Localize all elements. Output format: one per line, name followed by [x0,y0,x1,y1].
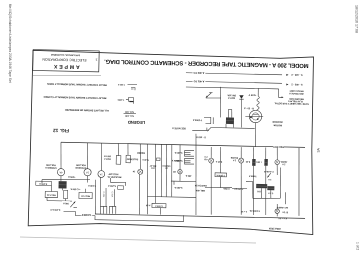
wire lamp4 up stub [276,204,278,209]
label A 401 TO [193,79,206,83]
wire seg y182 [110,181,125,184]
wire coil top link [228,108,231,110]
svg-text:C-100 A: C-100 A [155,204,163,207]
motor circle M2 [84,169,91,176]
wire long vertical x196 [195,147,198,215]
box RECT 2A right [79,192,92,198]
svg-text:A 403 TO: A 403 TO [194,71,205,74]
svg-text:file:///C|/Schablonen Liste/am: file:///C|/Schablonen Liste/ampex 200A 1… [8,4,12,83]
wire switch to node B [206,97,221,100]
svg-text:S-200 A: S-200 A [108,184,116,187]
cap C2 dark [265,147,267,159]
svg-text:4 B: 4 B [204,158,208,161]
small box x120 [118,186,124,190]
wire x285 stub [284,192,287,204]
lamp DS3 jewel [276,148,279,160]
wire box to bus [159,208,161,215]
svg-text:BRAKE: BRAKE [137,151,145,154]
wire diode down [241,99,242,127]
svg-text:S-400 A: S-400 A [174,151,182,154]
svg-text:3A: 3A [317,148,321,153]
wire row y200 [47,200,72,203]
wire bus to box T1000A [220,147,221,173]
svg-text:AC LAMPS: AC LAMPS [276,206,288,209]
svg-text:HOLLOW: HOLLOW [108,172,119,174]
wire row y179 [42,179,90,181]
wire vertical node B [220,87,221,117]
svg-text:2ND TRACK A: 2ND TRACK A [289,92,304,95]
note bracket [278,89,282,97]
svg-text:SWITCH 2A: SWITCH 2A [194,184,207,187]
svg-text:C 2 A: C 2 A [268,192,274,195]
wire inductor to tube [256,109,258,110]
label REC MOT [273,144,284,148]
svg-text:ROT 2: ROT 2 [104,157,111,159]
motor circle M3 [98,171,105,178]
transformer coil dark blob T-1000A [226,117,234,124]
switch-bank bottom link [147,196,196,197]
svg-text:2 A: 2 A [232,159,236,162]
wire y181 seg [171,180,196,183]
wire cap2 down [265,166,267,215]
box S-100A [36,181,52,185]
wire drop x87 [87,143,88,169]
wire coil lead 1 [227,109,229,117]
svg-text:T-1000 A: T-1000 A [192,118,202,121]
wire y198 [253,198,281,199]
wire drop x140 [140,144,141,169]
svg-text:C-10A: C-10A [102,191,105,197]
resistor box SW7A [116,156,121,165]
svg-text:LEGEND: LEGEND [128,120,146,125]
AMPEX title box [33,50,99,72]
svg-text:HOLLOW: HOLLOW [75,163,86,165]
relay comb S-400A lower [184,158,194,164]
switch arm SW10A [206,93,211,98]
box RECT 2A left [45,191,57,197]
wire lamp3 down [276,165,279,176]
relay coil dark MOT A [59,181,67,188]
svg-text:SAN CARLOS, CALIFORNIA: SAN CARLOS, CALIFORNIA [50,53,80,57]
svg-text:1 MEG: 1 MEG [255,160,261,162]
wire bus A403 [186,73,282,75]
switch arm lower-left [70,201,75,207]
svg-text:RECT 2A: RECT 2A [46,193,55,196]
svg-text:AMPEX: AMPEX [52,63,80,70]
wire cap1 down [252,166,254,215]
svg-text:N.C. 100: N.C. 100 [124,114,133,116]
wire drop x118 [117,143,120,155]
wire bus A401 [186,81,282,83]
wire drop x61 [60,142,61,168]
page shadow line [20,237,256,243]
wire under coil [211,127,256,130]
svg-text:R - 50 - A: R - 50 - A [244,106,254,109]
svg-text:S - 440 - 2: S - 440 - 2 [291,73,303,76]
snub2 down [270,190,272,198]
wire y187 seg [205,187,232,188]
coil drop 1 [225,124,227,128]
wire vertical x95 [95,180,96,214]
wire M1 to row [60,176,62,181]
wire coil to resistor [62,188,64,190]
svg-text:T-100 1: T-100 1 [117,83,125,85]
switch arm small [207,128,211,132]
motor circle M1 [57,169,64,176]
svg-text:SW 7A: SW 7A [104,154,111,157]
wire coil lead 2 [231,110,233,118]
wire note A step [192,127,207,130]
wire long vertical right x299 [298,148,301,216]
svg-text:SNUBB: SNUBB [230,156,238,158]
wire left stub down [41,180,43,184]
svg-text:S-100 A: S-100 A [39,182,47,185]
svg-text:HOLLOW: HOLLOW [45,163,56,165]
svg-text:C REL: C REL [222,187,229,189]
wire drop x180 [180,145,181,170]
svg-text:T-1000: T-1000 [117,98,124,100]
fan circle M4 [138,169,143,174]
resistor box solenoid [126,155,130,163]
main control bus [61,142,305,147]
svg-text:A 401 TO: A 401 TO [194,79,205,82]
svg-text:ROT 2: ROT 2 [228,96,236,98]
svg-text:REC MOT: REC MOT [273,145,284,147]
svg-text:C-14A: C-14A [111,191,114,197]
wire lamp1 down [210,163,212,215]
svg-text:T-100 A: T-100 A [88,184,96,187]
fuse arrow [267,173,270,177]
wire tube to bus [255,123,256,147]
lamp DS4 [275,209,279,213]
small box x158 [157,158,161,161]
svg-text:1 of 2: 1 of 2 [356,242,360,250]
svg-text:F-1-2A+5: F-1-2A+5 [263,170,273,173]
wire comb lead 2 [113,189,116,206]
wire y188 seg [232,187,247,190]
snubber dark 1 [256,184,267,188]
svg-text:SWITCH: SWITCH [162,164,170,166]
stub down x125 [125,182,127,185]
svg-text:200A 200X: 200A 200X [268,227,280,230]
transformer comb B [109,206,116,214]
svg-text:2 A: 2 A [282,163,286,166]
resistor mid [63,190,67,198]
wire box down [219,177,221,188]
lamp 4B right [178,169,182,173]
motor tube circle [249,110,262,123]
wire x252 down [251,182,254,199]
svg-text:MEL 45A: MEL 45A [195,189,205,192]
svg-text:RECORD: RECORD [272,120,282,122]
svg-text:SYNCRON: SYNCRON [75,166,86,168]
coil drop 2 [232,124,234,128]
svg-text:S - 403 - 2: S - 403 - 2 [291,83,303,86]
svg-text:S-10 A: S-10 A [215,160,222,163]
wire S403A drop [195,134,198,147]
relay comb S-400A upper [184,150,194,156]
lamp DS2 [240,147,242,158]
wire lamp4 down stub [276,213,278,216]
stub M2 [86,180,88,183]
arrowhead S-403-2 [286,83,288,85]
wire lamp4B down [179,174,181,181]
inductor R-50-A winding [257,96,260,109]
svg-text:N.O. 100: N.O. 100 [124,110,134,112]
wire staircase 1 [63,211,95,216]
arrowhead S-440-2 [286,74,288,76]
transformer comb A [100,206,107,214]
schematic border frame [28,50,313,234]
svg-text:S-400 A: S-400 A [174,159,182,162]
svg-text:SEE NOTE A: SEE NOTE A [172,126,186,129]
svg-text:300 A: 300 A [63,202,69,205]
wire rect1 down [46,198,48,201]
wire lamp2 down [240,163,242,215]
svg-text:+105 A: +105 A [68,175,76,178]
svg-text:T-800 A: T-800 A [249,174,257,177]
svg-text:400 A: 400 A [185,174,191,177]
bottom return bus [95,214,305,218]
bracket at T-1000A [204,117,211,123]
box T-1000A mid [215,173,227,177]
label 300 A [62,201,70,205]
svg-text:MOTOR: MOTOR [273,124,282,126]
svg-text:S-1000 A: S-1000 A [81,213,91,216]
svg-text:RELEASE 2A: RELEASE 2A [107,175,121,178]
svg-text:7A: 7A [99,172,103,176]
stub x174 [173,181,175,185]
svg-text:S-100 A X: S-100 A X [50,208,61,211]
wire comb lead 1 [105,188,108,206]
svg-text:FIG. 12: FIG. 12 [53,127,69,133]
wire bus to note bracket [186,87,279,89]
diode CR1 [239,95,243,99]
wire y181 right seg [246,180,253,182]
label A 403 TO [193,71,206,75]
svg-text:S7 2A: S7 2A [282,211,288,214]
svg-text:+105 V: +105 V [248,93,256,96]
lamp DS1 [210,147,212,158]
wire staircase 2 [95,213,184,221]
switch-bank comb verticals [146,144,149,214]
snubber dark 2 [267,186,274,190]
svg-text:T-1000 A: T-1000 A [216,174,225,177]
wire box to rect1 [50,185,52,191]
label S-1000 A [81,212,93,216]
wire vertical x280 [280,167,281,198]
wire resistor down [65,199,67,201]
svg-text:RECT 2A: RECT 2A [81,194,90,197]
svg-text:4A: 4A [59,171,63,175]
svg-text:S - 403 A: S - 403 A [196,135,206,138]
svg-text:1A: 1A [86,171,90,175]
wire to rect2 [85,189,87,193]
svg-text:STROBO A: STROBO A [45,166,57,169]
snub1 down [260,188,263,198]
cap C1 dark [252,147,254,159]
stub up x110 [109,178,111,182]
faint rule under AMPEX box [33,74,101,77]
wire drop x101 [101,143,102,170]
svg-text:S-400 A: S-400 A [174,186,182,189]
svg-text:18/12/2016 17:08: 18/12/2016 17:08 [355,5,359,33]
wire drop x128 [127,144,130,156]
svg-text:SOLENOID: SOLENOID [126,157,138,159]
wire long vertical x139 [139,174,141,214]
box C-100 A [152,203,166,207]
wire M3 column down [100,177,101,206]
svg-text:T-1000 2A: T-1000 2A [249,209,260,212]
svg-text:+ C-200 A: + C-200 A [70,187,80,190]
wire inductor top stub [257,88,259,96]
svg-text:JEWEL: JEWEL [279,160,287,162]
wire M2 to row [86,176,88,180]
